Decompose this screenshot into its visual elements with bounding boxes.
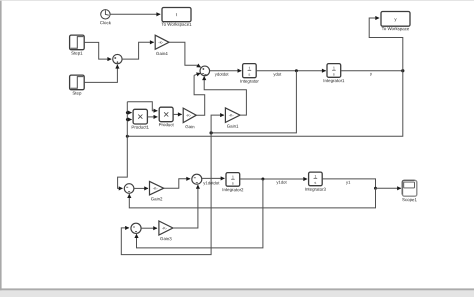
svg-text:ydotdot: ydotdot <box>215 72 230 77</box>
wire ydot down to bottom section <box>121 133 211 255</box>
svg-text:Integrator1: Integrator1 <box>323 78 345 83</box>
junction product1 in2 <box>126 118 129 121</box>
sum Sum1 <box>113 54 122 63</box>
integrator Integrator <box>243 64 257 78</box>
junction product1 in1 <box>126 111 129 114</box>
svg-text:-K-: -K- <box>162 226 168 230</box>
window lower strip <box>0 290 474 297</box>
wire y1dot feedback to Sum5 bottom <box>137 179 263 248</box>
wire Integrator2 to Integrator3, node y1dot <box>240 178 307 180</box>
svg-text:Integrator3: Integrator3 <box>305 187 327 192</box>
wire Clock to To Workspace1 <box>110 13 160 15</box>
svg-text:1: 1 <box>232 175 234 179</box>
wire stub to Product1 in1 <box>127 112 131 114</box>
wire y to To Workspace <box>369 18 403 71</box>
svg-text:s: s <box>232 181 234 185</box>
wire Sum2 to Integrator, node ydotdot <box>210 70 242 72</box>
wire Step to Sum1 bottom <box>84 65 117 83</box>
svg-text:Integrator2: Integrator2 <box>222 187 244 192</box>
svg-text:y1dotdot: y1dotdot <box>203 180 220 185</box>
wire y to Product in1 <box>127 102 157 111</box>
gain Gain3 <box>159 221 173 235</box>
gain Gain2 <box>150 181 164 195</box>
svg-text:Integrator: Integrator <box>240 79 259 84</box>
svg-text:To Workspace: To Workspace <box>382 26 410 31</box>
block To Workspace1 <box>162 8 191 22</box>
svg-text:Gain: Gain <box>185 124 195 129</box>
gain Gain4 <box>155 35 169 49</box>
block To Workspace <box>381 12 410 27</box>
wire Product1 to Product <box>147 116 157 118</box>
wire ydot feedback down <box>211 71 296 133</box>
sum Sum5 <box>131 223 141 233</box>
window border bottom <box>0 288 474 290</box>
wire Integrator3 to junction y1 <box>322 179 375 188</box>
wire y1 to Scope1 <box>376 187 401 189</box>
svg-text:Product: Product <box>159 122 175 127</box>
wire Sum1 to Gain4 <box>122 42 154 59</box>
junction ydot-line <box>210 131 213 134</box>
svg-text:y: y <box>370 71 373 76</box>
svg-text:Gain2: Gain2 <box>151 196 163 201</box>
wire y1 feedback to Sum3 bottom <box>129 188 375 208</box>
integrator Integrator2 <box>226 173 240 187</box>
junction y <box>401 69 404 72</box>
wire Gain4 to Sum2 top-left <box>169 42 197 65</box>
svg-text:y1dot: y1dot <box>276 180 287 185</box>
svg-text:Gain4: Gain4 <box>156 51 168 56</box>
svg-text:-K-: -K- <box>229 113 235 117</box>
wire Gain1 to Sum2 bottom <box>204 76 246 115</box>
gain Gain1 <box>225 108 240 123</box>
wire Integrator to Integrator1, node ydot <box>256 70 326 72</box>
svg-text:-K-: -K- <box>186 114 192 118</box>
svg-text:Step1: Step1 <box>71 51 83 56</box>
svg-text:-K-: -K- <box>158 41 164 45</box>
product Product <box>159 107 173 122</box>
junction y1dot <box>261 178 264 181</box>
svg-text:s: s <box>248 73 250 77</box>
wire Integrator1 to junction y <box>341 70 403 72</box>
integrator Integrator3 <box>309 172 323 186</box>
wire Sum3 to Gain2 <box>134 187 148 189</box>
svg-text:Gain1: Gain1 <box>227 124 239 129</box>
svg-text:Gain3: Gain3 <box>160 236 172 241</box>
junction y-line left end <box>126 135 129 138</box>
svg-text:y1: y1 <box>346 180 351 185</box>
svg-text:To Workspace1: To Workspace1 <box>161 22 192 27</box>
clock Clock <box>101 10 110 19</box>
gain Gain <box>183 108 196 123</box>
wire y feedback down and left <box>127 71 403 137</box>
sum Sum4 <box>192 174 202 184</box>
wire Gain2 to Sum4 <box>164 179 190 189</box>
junction ydot <box>295 69 298 72</box>
wire Gain to Sum2 lower-left <box>194 75 205 115</box>
source Step <box>70 75 85 90</box>
product Product1 <box>133 109 147 124</box>
wire stub to Product1 in2 <box>127 119 131 121</box>
svg-text:s: s <box>333 72 335 76</box>
svg-text:1: 1 <box>248 66 250 70</box>
integrator Integrator1 <box>327 64 341 78</box>
sum Sum3 <box>124 184 134 194</box>
wire Step1 to Sum1 <box>84 42 111 59</box>
svg-text:Step: Step <box>72 91 82 96</box>
svg-text:ydot: ydot <box>273 72 282 77</box>
window border top <box>0 0 474 2</box>
svg-text:Product1: Product1 <box>131 125 149 130</box>
scope Scope1 <box>402 180 417 196</box>
svg-text:1: 1 <box>314 175 316 179</box>
svg-text:-K-: -K- <box>153 187 159 191</box>
wire Sum5 to Gain3 <box>141 227 157 229</box>
window border left <box>0 0 2 291</box>
wire Gain3 to Sum4 bottom <box>173 185 198 228</box>
svg-text:s: s <box>314 181 316 185</box>
svg-text:1: 1 <box>333 66 335 70</box>
sum Sum2 <box>200 66 210 76</box>
svg-text:Clock: Clock <box>100 20 112 25</box>
wire y vertical to products and Sum3 <box>118 102 128 189</box>
junction y1 <box>374 187 377 190</box>
wire Product to Gain <box>173 113 182 115</box>
source Step1 <box>70 35 85 50</box>
wire Sum4 to Integrator2, node y1dotdot <box>202 177 225 179</box>
svg-text:Scope1: Scope1 <box>402 197 417 202</box>
wire ydot to Gain1 <box>211 115 224 133</box>
